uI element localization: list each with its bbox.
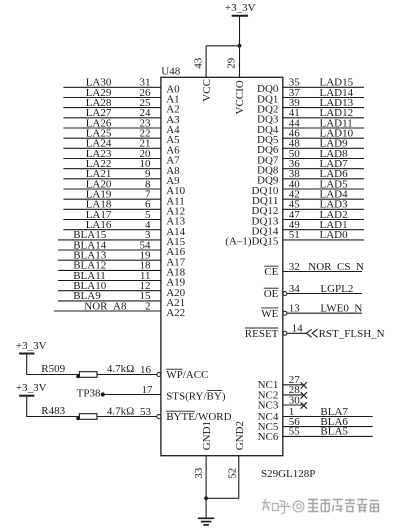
pin name A13: [166, 216, 185, 228]
svg-text:BYTE/WORD: BYTE/WORD: [166, 411, 231, 423]
pin name DQ13: [252, 215, 279, 227]
svg-text:+3_3V: +3_3V: [16, 382, 47, 394]
svg-text:2: 2: [145, 300, 151, 312]
wire net LA23 to pin 20 (A7): [63, 148, 160, 160]
wire net BLA6 to pin 56 (NC5): [283, 416, 373, 428]
svg-text:LAD0: LAD0: [320, 229, 349, 241]
pin name NC4: [258, 411, 279, 423]
pin name DQ2: [257, 103, 278, 115]
wire net LAD2 to pin 47 (DQ13): [283, 209, 364, 221]
pin name NC6: [258, 431, 279, 443]
svg-text:LGPL2: LGPL2: [320, 283, 353, 295]
power +3_3V supply symbol (for R509): [16, 340, 47, 354]
wire net LA28 to pin 25 (A2): [63, 97, 160, 109]
svg-text:RESET: RESET: [245, 328, 279, 340]
svg-text:BLA5: BLA5: [320, 426, 348, 438]
wire net LA26 to pin 23 (A4): [63, 117, 160, 129]
svg-text:4.7kΩ: 4.7kΩ: [107, 363, 134, 375]
svg-text:WP/ACC: WP/ACC: [166, 369, 208, 381]
wire net LA19 to pin 7 (A11): [63, 189, 160, 201]
wire net LA27 to pin 24 (A3): [63, 107, 160, 119]
svg-text:LWE0_N: LWE0_N: [320, 303, 362, 315]
svg-text:53: 53: [140, 406, 152, 418]
wire net LA21 to pin 9 (A9): [63, 168, 160, 180]
pin name A16: [166, 246, 185, 258]
svg-text:A22: A22: [166, 307, 185, 319]
pin number 52 (GND2): [227, 468, 239, 479]
pin name A0: [166, 83, 180, 95]
svg-text:U48: U48: [161, 66, 180, 78]
pin 16 inversion bubble: [157, 373, 161, 377]
wire net BLA11 to pin 11 (A19): [58, 270, 161, 282]
wire net BLA14 to pin 54 (A16): [58, 239, 161, 251]
svg-text:29: 29: [225, 57, 237, 69]
svg-text:33: 33: [193, 467, 205, 479]
pin name NC2: [258, 389, 279, 401]
pin name A22: [166, 307, 185, 319]
pin name A5: [166, 134, 180, 146]
pin number 33 (GND1): [193, 467, 205, 479]
wire net NOR_A8 to pin 2 (A22): [54, 300, 161, 312]
part value S29GL128P: [261, 468, 315, 480]
svg-text:+3_3V: +3_3V: [16, 340, 47, 352]
ground symbol: [198, 518, 214, 525]
wire net LAD1 to pin 49 (DQ14): [283, 219, 364, 231]
junction at R509 lead: [76, 375, 80, 379]
pin number 29 (VCCIO): [225, 57, 237, 69]
wire R509 to pin 16 WP/ACC: [97, 364, 157, 376]
wire net LAD14 to pin 37 (DQ1): [283, 87, 364, 99]
pin name DQ0: [257, 83, 279, 95]
wire net NOR_CS_N to pin 32 (CE): [283, 261, 364, 273]
svg-text:TP38: TP38: [77, 387, 101, 399]
svg-text:GND1: GND1: [201, 421, 213, 450]
wire +3_3V to resistor R483: [26, 397, 79, 417]
svg-text:R509: R509: [41, 363, 65, 375]
pin name DQ15: [225, 236, 279, 248]
pin name GND2: [234, 421, 246, 450]
pin name NC5: [258, 421, 279, 433]
wire net LA18 to pin 6 (A12): [63, 199, 160, 211]
wire net LAD4 to pin 42 (DQ11): [283, 189, 364, 201]
wire TP38 to pin 17 STS: [103, 384, 161, 396]
watermark: [262, 499, 379, 515]
pin name DQ1: [257, 93, 278, 105]
power +3_3V supply symbol (for R483): [16, 382, 47, 396]
svg-text:VCCIO: VCCIO: [234, 80, 246, 114]
wire net LAD11 to pin 44 (DQ4): [283, 117, 364, 129]
wire net BLA12 to pin 18 (A18): [58, 260, 161, 272]
pin name DQ6: [257, 144, 279, 156]
svg-text:R483: R483: [41, 405, 65, 417]
wire net LA29 to pin 26 (A1): [63, 87, 160, 99]
pin name A10: [166, 185, 185, 197]
pin name CE (active low): [264, 266, 278, 278]
wire net LAD6 to pin 38 (DQ9): [283, 168, 364, 180]
wire pin 28 (NC2) no-connect: [283, 384, 307, 398]
wire net LAD13 to pin 39 (DQ2): [283, 97, 364, 109]
wire GND1/GND2 to ground: [206, 456, 239, 518]
pin name WE (active low): [261, 308, 278, 320]
pin name A2: [166, 104, 179, 116]
svg-text:34: 34: [289, 283, 301, 295]
wire net BLA13 to pin 19 (A17): [58, 250, 161, 262]
wire net LAD5 to pin 40 (DQ10): [283, 178, 364, 190]
pin name DQ5: [257, 134, 279, 146]
svg-text:NC3: NC3: [258, 399, 279, 411]
wire net LA16 to pin 4 (A14): [63, 219, 160, 231]
pin name GND1: [201, 421, 213, 450]
svg-text:13: 13: [289, 303, 301, 315]
wire +3_3V to VCC/VCCIO pins: [206, 17, 239, 78]
wire net BLA15 to pin 3 (A15): [58, 229, 161, 241]
wire pin 30 (NC3) no-connect: [283, 394, 307, 408]
svg-text:NOR_CS_N: NOR_CS_N: [308, 261, 364, 273]
svg-text:S29GL128P: S29GL128P: [261, 468, 315, 480]
wire net LA24 to pin 21 (A6): [63, 138, 160, 150]
pin name A3: [166, 114, 180, 126]
pin name VCC: [201, 79, 213, 102]
wire pin 27 (NC1) no-connect: [283, 374, 307, 388]
svg-text:51: 51: [289, 229, 300, 241]
svg-text:STS(RY/BY): STS(RY/BY): [166, 390, 226, 402]
pin name A18: [166, 267, 185, 279]
pin name A21: [166, 297, 185, 309]
pin name RESET (active low): [245, 328, 279, 340]
svg-text:RST_FLSH_N: RST_FLSH_N: [319, 328, 385, 340]
svg-text:NC6: NC6: [258, 431, 279, 443]
pin 53 inversion bubble: [157, 415, 161, 419]
wire net LA22 to pin 10 (A8): [63, 158, 160, 170]
wire R483 to pin 53 BYTE/WORD: [97, 406, 157, 418]
pin name A15: [166, 236, 185, 248]
wire net LAD3 to pin 45 (DQ12): [283, 199, 364, 211]
svg-text:NOR_A8: NOR_A8: [84, 300, 127, 312]
pin name DQ12: [252, 205, 279, 217]
wire net BLA9 to pin 15 (A21): [58, 290, 161, 302]
svg-text:4.7kΩ: 4.7kΩ: [107, 405, 134, 417]
pin name DQ11: [252, 195, 278, 207]
svg-text:CE: CE: [264, 266, 278, 278]
svg-text:OE: OE: [264, 288, 279, 300]
pin name NC1: [258, 379, 279, 391]
wire net BLA7 to pin 1 (NC4): [283, 406, 373, 418]
resistor R483 4.7k pull-up: [41, 405, 134, 419]
pin name WP/ACC: [166, 369, 208, 381]
svg-text:14: 14: [292, 323, 304, 335]
svg-text:52: 52: [227, 468, 239, 479]
pin name OE (active low): [264, 288, 279, 300]
pin name DQ7: [257, 154, 279, 166]
wire net LA20 to pin 8 (A10): [63, 178, 160, 190]
svg-text:WE: WE: [261, 308, 278, 320]
wire net LGPL2 to pin 34 (OE): [283, 283, 362, 296]
test point TP38: [77, 387, 105, 399]
wire net LAD10 to pin 46 (DQ5): [283, 128, 364, 140]
pin name NC3: [258, 399, 279, 411]
reference designator U48: [161, 66, 180, 78]
pin name A9: [166, 175, 180, 187]
pin name A6: [166, 144, 180, 156]
svg-text:55: 55: [289, 426, 301, 438]
wire net LA30 to pin 31 (A0): [63, 77, 160, 89]
pin name BYTE/WORD: [166, 411, 231, 423]
svg-text:30: 30: [289, 394, 301, 406]
pin name A8: [166, 165, 180, 177]
pin name DQ4: [257, 124, 279, 136]
pin name A4: [166, 124, 180, 136]
pin name A20: [166, 287, 185, 299]
svg-text:GND2: GND2: [234, 421, 246, 450]
pin name A1: [166, 94, 179, 106]
wire net LAD8 to pin 50 (DQ7): [283, 148, 364, 160]
pin name A7: [166, 155, 180, 167]
svg-text:16: 16: [140, 364, 152, 376]
svg-text:32: 32: [289, 261, 300, 273]
pin name A19: [166, 277, 185, 289]
svg-text:17: 17: [142, 384, 154, 396]
svg-text:43: 43: [193, 57, 205, 69]
pin name DQ9: [257, 175, 279, 187]
wire net BLA10 to pin 12 (A20): [58, 280, 161, 292]
pin name STS(RY/BY): [166, 390, 226, 402]
wire net LWE0_N to pin 13 (WE): [283, 303, 363, 316]
op chip U48 S29GL128P body: [161, 77, 283, 455]
svg-text:(A–1)DQ15: (A–1)DQ15: [225, 236, 279, 248]
pin name DQ14: [252, 226, 279, 238]
wire net LA17 to pin 5 (A13): [63, 209, 160, 221]
wire net BLA5 to pin 55 (NC6): [283, 426, 373, 438]
pin name DQ10: [252, 185, 279, 197]
power +3_3V supply symbol (top): [225, 2, 256, 16]
pin name A12: [166, 205, 185, 217]
pin name A17: [166, 256, 185, 268]
wire net LAD9 to pin 48 (DQ6): [283, 138, 364, 150]
wire net LA25 to pin 22 (A5): [63, 128, 160, 140]
pin number 43 (VCC): [193, 57, 205, 69]
pin name A14: [166, 226, 185, 238]
pin name DQ8: [257, 165, 279, 177]
wire +3_3V to resistor R509: [26, 354, 79, 374]
svg-text:+3_3V: +3_3V: [225, 2, 256, 14]
pin name DQ3: [257, 114, 279, 126]
pin name VCCIO: [234, 80, 246, 114]
pin name A11: [166, 195, 185, 207]
wire net LAD12 to pin 41 (DQ3): [283, 107, 364, 119]
resistor R509 4.7k pull-up: [41, 363, 134, 377]
wire net RST_FLSH_N to pin 14 (RESET) with sheet-entry chevron: [283, 323, 385, 341]
junction at R483 lead: [76, 417, 80, 421]
wire net LAD15 to pin 35 (DQ0): [283, 77, 364, 89]
wire net LAD0 to pin 51 (DQ15): [283, 229, 364, 241]
junction on ground net: [204, 496, 208, 500]
svg-text:VCC: VCC: [201, 79, 213, 102]
junction on +3_3V net: [238, 44, 242, 48]
wire net LAD7 to pin 36 (DQ8): [283, 158, 364, 170]
